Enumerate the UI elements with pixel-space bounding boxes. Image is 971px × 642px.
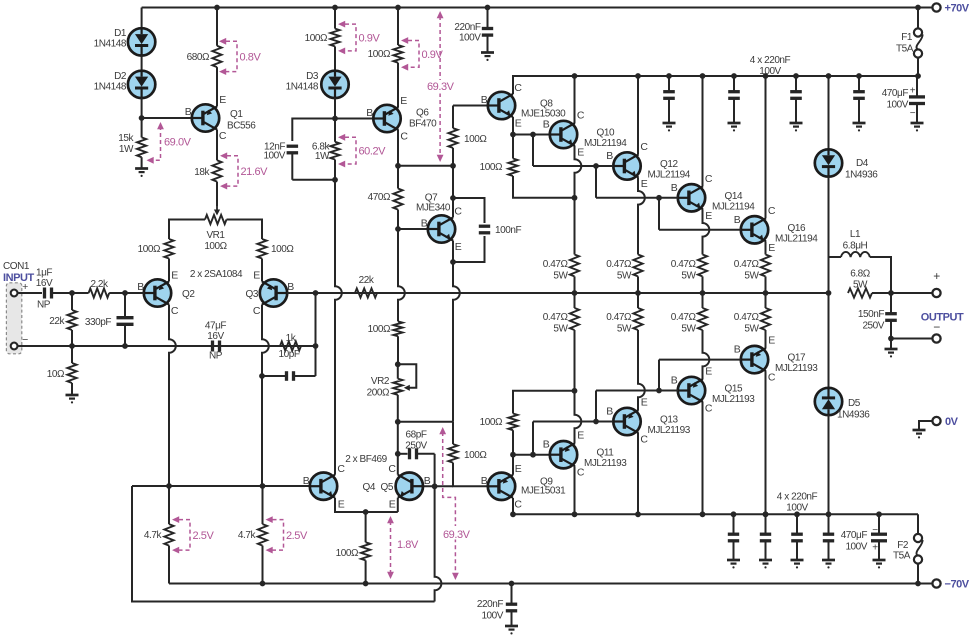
polarity mark input minus	[22, 334, 28, 346]
svg-text:470μF: 470μF	[882, 88, 909, 99]
ground 220nF top left	[481, 53, 494, 62]
node Q11 E / bias	[572, 388, 578, 394]
node top rail / F1	[915, 5, 921, 11]
svg-text:C: C	[219, 130, 227, 142]
label 0.47R 5W bot1	[543, 312, 569, 335]
svg-text:+: +	[22, 281, 28, 293]
label 150nF 250V	[858, 309, 885, 332]
node lineA / 220nF	[509, 581, 515, 587]
node 6.8k bottom	[332, 177, 338, 183]
wire D1 branch	[141, 8, 143, 29]
svg-text:4 x 220nF: 4 x 220nF	[750, 55, 791, 66]
wire D4 to bus	[828, 176, 830, 293]
label 2 x BF469	[345, 454, 387, 465]
svg-text:E: E	[338, 498, 345, 510]
wire 100nF bottom	[453, 236, 485, 262]
label 470uF bottom	[841, 530, 868, 553]
wire D5 branch	[828, 293, 830, 388]
label Q5	[381, 482, 394, 493]
wire bus to output+	[872, 292, 932, 294]
svg-text:B: B	[287, 281, 294, 293]
resistor 100R VR2 chain	[393, 321, 402, 336]
transistor Q12 MJL21194	[613, 152, 640, 179]
label 15k 1W	[118, 133, 134, 155]
svg-text:L1: L1	[850, 229, 861, 240]
capacitor 220nF bottom1	[728, 514, 739, 560]
node Q4 base / 4.7k#2	[260, 483, 266, 489]
label 4x220nF bottom	[777, 492, 818, 514]
resistor 0.47R 5W bot3	[698, 293, 707, 330]
svg-text:Q1: Q1	[230, 109, 243, 120]
wire Q15 collector	[702, 402, 704, 514]
label 0.47R 5W top3	[671, 259, 697, 282]
label -70V	[945, 579, 970, 591]
capacitor 150nF 250V	[885, 293, 897, 339]
label 100R Q8 emitter	[480, 162, 503, 173]
marks 470uF bottom plus	[872, 543, 878, 554]
wiper arrow VR1	[214, 206, 220, 216]
annotation 69.3V top	[425, 11, 462, 162]
svg-text:C: C	[337, 463, 345, 475]
svg-text:C: C	[514, 498, 522, 510]
wire Q6C to Q8 branch	[398, 165, 453, 167]
node base chain 1 bottom	[530, 452, 536, 458]
node rail76 / cap4	[856, 73, 862, 79]
node top rail / D3 chain	[332, 5, 338, 11]
svg-text:C: C	[400, 131, 408, 143]
svg-text:MJL21193: MJL21193	[775, 363, 818, 374]
label D2 1N4148	[94, 71, 127, 93]
wire base chain riser 1 top	[532, 135, 534, 167]
label Q2	[182, 289, 195, 300]
wire 100R to VR2	[397, 336, 399, 364]
svg-text:2 x 2SA1084: 2 x 2SA1084	[190, 269, 243, 280]
resistor 18k	[212, 160, 221, 181]
svg-text:Q14: Q14	[725, 191, 743, 202]
label 1uF 16V NP	[36, 268, 53, 311]
svg-text:1N4148: 1N4148	[94, 39, 127, 50]
annotation 2.5V #1	[172, 516, 214, 553]
wire base chain riser 2 bottom	[595, 391, 597, 422]
svg-text:680Ω: 680Ω	[187, 52, 210, 63]
svg-text:E: E	[171, 270, 178, 282]
svg-text:NP: NP	[209, 351, 223, 362]
svg-text:100V: 100V	[459, 33, 481, 44]
label 10pF	[279, 349, 300, 360]
label Q16 MJL21194	[775, 223, 818, 245]
svg-text:B: B	[734, 214, 741, 226]
marks 470uF bottom	[872, 525, 878, 536]
node lineA / 100R 1.8V	[363, 581, 369, 587]
svg-text:100V: 100V	[886, 100, 908, 111]
node rail514 / Q13 C	[635, 511, 641, 517]
resistor 6.8R 5W	[848, 288, 872, 297]
wire Q8E to Q10 base	[513, 134, 550, 136]
svg-text:VR2: VR2	[371, 376, 390, 387]
svg-text:MJL21194: MJL21194	[712, 201, 755, 212]
label Q4	[363, 482, 376, 493]
node 10pF / Q3 collector	[259, 373, 265, 379]
wire Q1 collector	[216, 130, 218, 161]
svg-text:1N4936: 1N4936	[845, 170, 878, 181]
node Q7 E / 100nF	[450, 259, 456, 265]
transistor Q4 BF469	[310, 473, 337, 500]
wire 12nF bottom	[292, 179, 335, 181]
capacitor 220nF 100V top left	[482, 8, 493, 53]
diode D5 1N4936	[815, 388, 842, 415]
wire main output bus	[316, 292, 829, 294]
svg-text:Q13: Q13	[660, 415, 678, 426]
node Q6 C	[395, 163, 401, 169]
label VR1 100R	[204, 230, 227, 252]
node base chain 3 bottom	[656, 388, 662, 394]
annotation 69.3V bottom	[439, 427, 472, 580]
pin labels Q16	[734, 205, 776, 254]
terminal output -	[932, 334, 940, 342]
wire Q3 base to bus	[287, 292, 316, 294]
svg-text:100V: 100V	[481, 611, 503, 622]
node VR2 bottom / Q5 collector	[395, 419, 401, 425]
svg-text:47μF: 47μF	[205, 321, 227, 332]
label 100R Q8 base	[464, 134, 487, 145]
node Q7 C / 100nF	[450, 195, 456, 201]
wire Q3 collector	[262, 305, 269, 377]
svg-text:22k: 22k	[359, 275, 375, 286]
svg-text:100Ω: 100Ω	[271, 244, 294, 255]
wire Q17 emitter	[765, 330, 767, 348]
pin labels Q2	[137, 270, 179, 318]
wire Q8 emitter	[512, 117, 514, 135]
ground 470uF top	[911, 123, 924, 131]
svg-text:F1: F1	[901, 32, 913, 43]
node rail76 / Q16 C	[763, 73, 769, 79]
capacitor 220nF bottom3	[791, 514, 803, 560]
svg-text:200Ω: 200Ω	[367, 388, 390, 399]
ground 220nF bottom4	[822, 560, 835, 569]
node rail76 / Q10 C	[572, 73, 578, 79]
svg-text:C: C	[171, 305, 179, 317]
svg-text:E: E	[253, 270, 260, 282]
svg-text:1N4148: 1N4148	[94, 82, 127, 93]
wire VR2 node to Q7 emitter line	[398, 421, 453, 423]
svg-text:C: C	[768, 372, 776, 384]
transistor Q17 MJL21193	[741, 346, 768, 373]
node rail514 / cap4	[826, 511, 832, 517]
annotation 60.2V	[338, 134, 386, 168]
capacitor 470uF 100V top	[909, 76, 925, 123]
diode D2 1N4148	[128, 71, 155, 98]
svg-text:E: E	[515, 118, 522, 130]
transistor Q7 MJE340	[428, 215, 455, 242]
resistor 15k 1W	[137, 118, 146, 169]
node 1k/Bnode column	[313, 343, 319, 349]
wire 1k to Bnode column	[301, 345, 316, 347]
label Q8 MJE15030	[521, 99, 566, 120]
transistor Q13 MJL21193	[613, 408, 640, 435]
label 68pF 250V	[405, 430, 427, 452]
node rail514 / Q15 C	[700, 511, 706, 517]
svg-text:15k: 15k	[118, 133, 134, 144]
svg-text:C: C	[705, 173, 713, 185]
wire Q4B loop part2	[435, 486, 442, 601]
inductor L1 6.8uH	[829, 252, 892, 293]
ground 220nF bottom3	[791, 560, 804, 569]
marks 470uF top	[910, 86, 916, 97]
annotation 0.8V	[219, 38, 261, 75]
svg-text:Q4: Q4	[363, 482, 376, 493]
svg-text:220nF: 220nF	[454, 22, 480, 33]
polarity output -	[933, 320, 940, 334]
svg-text:10Ω: 10Ω	[47, 369, 65, 380]
node Q5 base	[432, 483, 438, 489]
wire Q14 collector	[702, 76, 704, 186]
svg-text:21.6V: 21.6V	[241, 166, 269, 178]
label 0.47R 5W bot2	[606, 312, 632, 335]
svg-text:100V: 100V	[263, 151, 285, 162]
wire Q11 collector	[574, 466, 576, 514]
svg-text:0.47Ω: 0.47Ω	[606, 259, 632, 270]
terminal +70V	[932, 3, 940, 11]
wire Q15 emitter	[703, 330, 710, 379]
wire Q4B loop part1	[132, 486, 435, 602]
svg-text:B: B	[481, 94, 488, 106]
label 1k	[286, 333, 297, 344]
pin labels Q3	[253, 270, 294, 318]
wire VR1 right	[227, 220, 263, 240]
node rail76 / Q12 C	[635, 73, 641, 79]
node rail76 / D4	[826, 73, 832, 79]
capacitor 1uF 16V NP	[45, 288, 73, 299]
svg-text:69.0V: 69.0V	[164, 137, 192, 149]
node emitter bar / 100R	[363, 509, 369, 515]
label D3 1N4148	[286, 71, 319, 93]
connector CON1 body	[6, 283, 21, 354]
label 100R Q9 base	[464, 450, 487, 461]
transistor Q6 BF470	[373, 105, 400, 132]
trimpot VR2 body	[393, 364, 402, 395]
node 330pF bottom	[122, 343, 128, 349]
pin labels Q12	[606, 141, 648, 190]
pin labels Q17	[734, 335, 776, 384]
wire 100R to Q10 emitter column	[513, 176, 575, 198]
svg-text:6.8Ω: 6.8Ω	[850, 269, 871, 280]
ground 220nF bottom1	[727, 560, 740, 569]
transistor Q11 MJL21193	[550, 441, 577, 468]
node rail76 / cap2	[731, 73, 737, 79]
label Q17 MJL21193	[775, 353, 818, 375]
svg-text:100Ω: 100Ω	[336, 548, 359, 559]
node Q3 base junction	[313, 290, 319, 296]
label Q9 MJE15031	[521, 477, 566, 497]
wire Q12 collector	[637, 76, 639, 155]
pin labels Q9	[481, 463, 523, 511]
wire Q9 base	[453, 463, 489, 487]
capacitor 47uF 16V NP	[213, 341, 220, 352]
svg-text:100nF: 100nF	[495, 225, 521, 236]
wire base chain step 1 top	[533, 165, 613, 167]
svg-text:2 x BF469: 2 x BF469	[345, 454, 387, 465]
capacitor 330pF	[117, 293, 134, 346]
fuse F1 T5A	[914, 8, 923, 77]
label 0V	[945, 416, 959, 428]
svg-text:1k: 1k	[286, 333, 297, 344]
node rail514 / Q17 C	[763, 511, 769, 517]
capacitor 68pF 250V	[410, 448, 435, 459]
svg-text:100Ω: 100Ω	[368, 49, 391, 60]
annotation 21.6V	[220, 152, 268, 189]
svg-text:22k: 22k	[49, 316, 65, 327]
terminal -70V	[932, 579, 940, 587]
svg-text:VR1: VR1	[206, 230, 225, 241]
wire base chain step 3 bottom	[659, 359, 741, 361]
svg-text:10pF: 10pF	[279, 349, 300, 360]
wire 150nF ground stub	[890, 339, 892, 350]
pin labels Q11	[543, 430, 585, 479]
label 100R VR2 chain	[368, 324, 391, 335]
svg-text:C: C	[640, 434, 648, 446]
wire 68pF left	[398, 453, 408, 455]
svg-text:Q11: Q11	[597, 448, 615, 459]
svg-text:16V: 16V	[36, 278, 53, 289]
svg-text:2.5V: 2.5V	[286, 530, 308, 542]
svg-text:CON1: CON1	[3, 261, 30, 272]
svg-text:6.8μH: 6.8μH	[843, 241, 868, 252]
svg-text:Q6: Q6	[416, 108, 429, 119]
svg-text:B: B	[481, 475, 488, 487]
node rail514 / Q9 C	[510, 511, 516, 517]
svg-text:D3: D3	[306, 71, 319, 82]
pin labels Q8	[481, 82, 523, 130]
svg-text:0.47Ω: 0.47Ω	[734, 312, 760, 323]
label 470R	[368, 192, 391, 203]
wire Q5 base	[423, 485, 454, 487]
svg-text:1μF: 1μF	[36, 268, 52, 279]
wire output minus	[891, 338, 932, 340]
capacitor 220nF top1	[663, 76, 675, 123]
resistor 100R Q8 base	[448, 128, 457, 148]
node bus / 0R47-3	[700, 290, 706, 296]
node 68pF tap	[395, 451, 401, 457]
svg-text:B: B	[424, 475, 431, 487]
wire VR2 chain upper	[398, 229, 405, 321]
svg-text:B: B	[543, 439, 550, 451]
node 150nF / output minus	[888, 336, 894, 342]
label 220nF bottom left	[477, 599, 504, 622]
svg-text:D5: D5	[848, 398, 861, 409]
svg-text:100Ω: 100Ω	[480, 162, 503, 173]
svg-text:E: E	[389, 498, 396, 510]
svg-text:−: −	[910, 108, 916, 119]
wire base chain riser 1 bottom	[532, 422, 534, 455]
svg-text:B: B	[421, 218, 428, 230]
ground 220nF top3	[790, 123, 803, 131]
node rail76 / Q14 C	[700, 73, 706, 79]
terminal 0V	[932, 417, 940, 425]
svg-text:+: +	[872, 543, 878, 554]
pin labels Q13	[606, 397, 648, 446]
wire Q10 collector	[574, 76, 576, 123]
svg-text:NP: NP	[37, 300, 51, 311]
wire Q6 collector	[397, 130, 399, 166]
node D2/15k/Q1 base	[139, 115, 145, 121]
wire Q6 base	[335, 118, 374, 120]
transistor Q1 BC556	[192, 104, 219, 131]
svg-text:E: E	[705, 366, 712, 378]
node VR2 top	[395, 361, 401, 367]
wire Q13 emitter	[638, 330, 645, 410]
svg-text:1N4148: 1N4148	[286, 82, 319, 93]
node Q7 base	[395, 226, 401, 232]
svg-text:470Ω: 470Ω	[368, 192, 391, 203]
resistor 4.7k #1	[164, 486, 173, 584]
terminal output +	[932, 289, 940, 297]
pin labels Q1	[185, 94, 227, 142]
capacitor 220nF bottom2	[760, 514, 771, 560]
transistor Q5 BF469	[396, 473, 423, 500]
label 10R	[47, 369, 65, 380]
resistor 100R D3 chain	[330, 8, 339, 72]
svg-text:E: E	[641, 397, 648, 409]
node Q9 E	[510, 452, 516, 458]
wire D1-D2	[141, 55, 143, 71]
label 220nF top left	[454, 22, 481, 44]
node base chain 1	[530, 132, 536, 138]
label 2.2k	[90, 279, 109, 290]
svg-text:E: E	[455, 241, 462, 253]
annotation 1.8V	[387, 516, 419, 579]
svg-text:5W: 5W	[681, 271, 696, 282]
resistor 100R Q6 emitter	[393, 8, 402, 108]
wire Q1 base	[142, 117, 193, 119]
ground 10R	[66, 395, 79, 404]
transistor Q9 MJE15031	[488, 473, 515, 500]
node 22k/1uF	[69, 290, 75, 296]
svg-text:F2: F2	[897, 540, 909, 551]
svg-text:470μF: 470μF	[841, 530, 868, 541]
label F2 T5A	[893, 540, 911, 562]
wire -70V rail	[169, 583, 932, 585]
node bus / 0R47-1	[572, 290, 578, 296]
svg-text:B: B	[366, 107, 373, 119]
label 4.7k #1	[144, 530, 163, 541]
annotation 69.0V	[147, 122, 192, 164]
label 0.47R 5W top2	[606, 259, 632, 282]
label 100R left	[138, 244, 161, 255]
wire VR2 bottom	[397, 395, 399, 422]
svg-text:Q15: Q15	[725, 384, 743, 395]
label 100R Q9 emitter	[480, 417, 503, 428]
svg-text:0.47Ω: 0.47Ω	[543, 312, 569, 323]
label 680R	[187, 52, 210, 63]
svg-text:E: E	[400, 95, 407, 107]
svg-text:E: E	[768, 242, 775, 254]
resistor 22k feedback	[355, 288, 377, 297]
node rail514 / cap1	[731, 511, 737, 517]
trimpot VR1 body	[205, 215, 227, 224]
label 330pF	[85, 317, 111, 328]
svg-text:BC556: BC556	[227, 121, 256, 132]
transistor Q3 2SA1084	[260, 279, 287, 306]
svg-text:0.9V: 0.9V	[359, 33, 381, 45]
svg-text:C: C	[577, 467, 585, 479]
label 47uF 16V NP	[205, 321, 227, 362]
svg-text:B: B	[137, 281, 144, 293]
polarity output +	[933, 269, 940, 283]
svg-text:C: C	[705, 403, 713, 415]
wire 18k to VR1 wiper	[216, 182, 218, 206]
annotation 2.5V #2	[266, 516, 308, 553]
resistor 22k input	[67, 293, 76, 346]
